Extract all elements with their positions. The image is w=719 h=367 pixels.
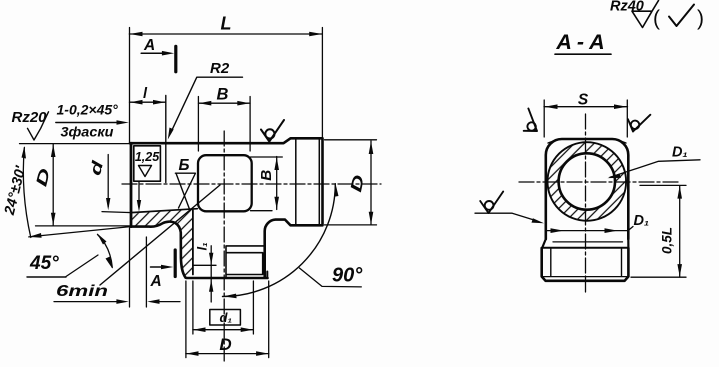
svg-text:l₁: l₁ bbox=[195, 242, 210, 250]
dim 6min lines with arrows bbox=[54, 301, 180, 303]
left port thread box bbox=[134, 146, 161, 181]
part outline: branch bottom face bbox=[187, 277, 268, 280]
centerline horizontal axis bbox=[122, 183, 381, 185]
svg-text:1,25: 1,25 bbox=[135, 150, 160, 164]
part outline: bottom of left neck, fillet dome, branch left wall bbox=[131, 222, 186, 278]
roughness circle-check on top surface bbox=[261, 120, 284, 142]
cone seat line bbox=[131, 209, 197, 213]
dim 0.5L extension lines bbox=[631, 185, 686, 277]
angle 24 arc bbox=[23, 148, 30, 238]
R2 leader bbox=[171, 77, 243, 133]
dim B extension lines bbox=[198, 97, 250, 152]
svg-text:3фаски: 3фаски bbox=[61, 125, 115, 140]
dim l1 line bbox=[210, 246, 212, 302]
svg-text:1-0,2×45°: 1-0,2×45° bbox=[57, 102, 119, 118]
svg-text:D: D bbox=[219, 335, 231, 354]
svg-text:В: В bbox=[258, 170, 275, 181]
svg-text:): ) bbox=[697, 7, 704, 30]
roughness 1,25 leader arrow bbox=[138, 181, 140, 206]
hatch: sectioned wall left port + branch left wall bbox=[131, 209, 197, 278]
A-A shoulder lines bbox=[553, 241, 623, 243]
roughness symbol top right bbox=[626, 110, 651, 134]
dim d line bbox=[107, 155, 109, 207]
section plane bar top bbox=[174, 46, 177, 72]
internal cavity (break-out window) bbox=[198, 155, 252, 211]
hatch: top corners of square bbox=[548, 140, 626, 143]
cone seat extension left bbox=[102, 212, 131, 213]
dim V(cyr) line bbox=[276, 157, 278, 210]
dim D bottom extension lines bbox=[186, 281, 269, 358]
dim S line bbox=[544, 106, 628, 108]
svg-text:d₁: d₁ bbox=[220, 310, 233, 325]
centerline A-A horizontal bbox=[519, 181, 681, 183]
A-A turned outer circle bbox=[548, 142, 627, 221]
dim d1 extension lines bbox=[193, 281, 254, 334]
6min extension lines bbox=[130, 228, 147, 307]
dim d1 line bbox=[193, 329, 253, 331]
branch thread end tick bbox=[193, 264, 216, 266]
part outline: top profile with chamfer and right cap bbox=[130, 138, 323, 277]
dim D1 top leader with shelf bbox=[610, 160, 700, 177]
dim L line bbox=[129, 33, 322, 35]
part outline: branch bottom right corner bbox=[266, 272, 268, 279]
section arrow A top bbox=[141, 52, 165, 54]
dim D left extension lines bbox=[20, 144, 132, 226]
roughness 1,25 triangle bbox=[139, 166, 152, 177]
angle 90 arc with arrows bbox=[223, 184, 336, 297]
svg-text:L: L bbox=[221, 14, 232, 34]
chamfer note shelf with arrow bbox=[56, 122, 122, 124]
svg-text:Rz20: Rz20 bbox=[12, 109, 48, 126]
A-A body rounded square bbox=[546, 139, 629, 239]
left port thread end line bbox=[165, 96, 167, 183]
section plane bar bottom bbox=[174, 250, 177, 277]
svg-text:45°: 45° bbox=[29, 253, 59, 274]
Rz20 symbol bbox=[28, 112, 49, 140]
dim S extension lines bbox=[544, 100, 627, 137]
svg-text:(: ( bbox=[653, 7, 660, 30]
svg-text:B: B bbox=[217, 86, 229, 104]
dim D left line bbox=[52, 144, 54, 225]
svg-text:D₁: D₁ bbox=[672, 145, 688, 161]
A-A neck flare bbox=[542, 239, 629, 249]
A-A bottom face line bbox=[543, 276, 628, 278]
angle 24 lower leg with arrow bbox=[29, 227, 131, 237]
dim D1 lower leader bbox=[628, 227, 633, 231]
svg-text:A: A bbox=[143, 37, 155, 54]
hatch: annulus of section A-A bbox=[548, 142, 627, 221]
dim D1 inner line with arrows bbox=[546, 230, 628, 232]
svg-text:D₁: D₁ bbox=[634, 213, 650, 229]
dim L extension lines bbox=[130, 28, 323, 144]
surface B leaders bbox=[176, 174, 195, 211]
centerline branch axis bbox=[223, 131, 225, 361]
dim 0.5L line bbox=[679, 186, 681, 277]
dim B line bbox=[199, 102, 251, 104]
svg-text:S: S bbox=[578, 92, 589, 109]
svg-text:90°: 90° bbox=[332, 265, 363, 287]
dim D right line bbox=[370, 141, 372, 225]
svg-text:A: A bbox=[150, 273, 162, 290]
svg-text:R2: R2 bbox=[210, 60, 230, 77]
angle 45 leader bbox=[66, 255, 98, 277]
dim D bottom line bbox=[186, 353, 269, 355]
branch thread recess rect bbox=[226, 246, 264, 278]
section arrow A bottom bbox=[151, 266, 165, 268]
A-A bore circle D1 bbox=[559, 153, 615, 209]
A-A bottom cylinder outline bbox=[542, 248, 629, 281]
svg-text:6min: 6min bbox=[56, 283, 108, 300]
dim l line bbox=[130, 101, 166, 103]
roughness symbol top left bbox=[516, 108, 544, 137]
dim D right extension lines bbox=[325, 140, 377, 225]
right cap thread lines bbox=[296, 139, 320, 225]
break-out diagonal 45 line bbox=[100, 185, 220, 285]
roughness symbol left with leader bbox=[480, 192, 503, 214]
dim d1 framed label bbox=[210, 310, 241, 326]
svg-text:0,5L: 0,5L bbox=[660, 227, 675, 254]
dim V extension lines bbox=[251, 157, 283, 211]
part outline: left face bbox=[130, 143, 133, 226]
A-A thread lines bbox=[551, 249, 622, 276]
svg-text:Rz40: Rz40 bbox=[610, 0, 644, 15]
centerline A-A vertical bbox=[585, 114, 587, 292]
svg-text:А-А: А-А bbox=[555, 30, 609, 54]
svg-text:Б: Б bbox=[179, 157, 190, 174]
angle 45 arc with arrows bbox=[98, 235, 113, 268]
Rz40 triangle symbol bbox=[632, 1, 659, 28]
branch bore left edge bbox=[192, 210, 194, 275]
